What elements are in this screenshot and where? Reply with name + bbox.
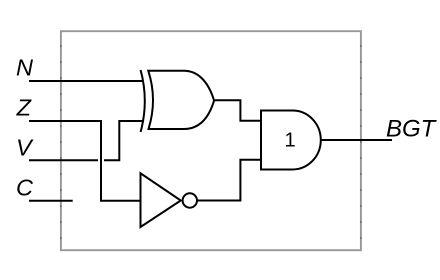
wire Z down to inverter input [29,121,141,201]
grid dots on frame left edge [60,45,62,239]
xor gate U1 front input arc [141,70,145,132]
gray bounding frame [61,31,361,250]
wire C stub (unconnected) [29,200,73,202]
grid dots on frame right edge [360,45,362,239]
svg-text:V: V [16,135,34,161]
svg-text:C: C [16,175,34,201]
xor gate U1 body [148,71,214,129]
wire V jog up to XOR bottom input [104,121,143,160]
wire V left segment [29,159,98,161]
inverter U2 bubble [183,193,197,207]
svg-text:BGT: BGT [386,116,438,143]
svg-text:Z: Z [16,95,33,121]
wire inverter output to AND bottom input [197,160,261,201]
wire XOR output to AND top input [215,100,261,120]
and gate U3 body [261,111,321,170]
wire N to XOR top input [29,80,143,82]
svg-text:N: N [16,55,33,81]
wire AND output to BGT [321,139,392,141]
svg-text:1: 1 [284,130,295,152]
inverter U2 triangle [141,173,181,227]
